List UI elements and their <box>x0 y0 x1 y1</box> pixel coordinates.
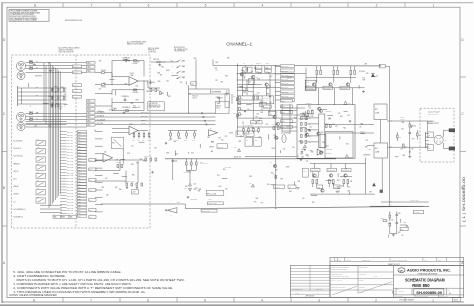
svg-text:C45: C45 <box>309 107 312 109</box>
svg-text:R21: R21 <box>257 114 260 116</box>
main signal bus A-CH1 <box>165 158 336 160</box>
cluster C18 R37 <box>117 165 119 168</box>
svg-text:C10: C10 <box>170 61 173 63</box>
svg-text:BD1: BD1 <box>89 169 92 171</box>
svg-text:R70: R70 <box>99 61 102 63</box>
svg-text:C23: C23 <box>193 183 196 185</box>
svg-text:J1B-14 SEL: J1B-14 SEL <box>67 169 74 171</box>
svg-text:D21: D21 <box>257 92 260 94</box>
svg-text:R37: R37 <box>301 142 304 144</box>
svg-text:100: 100 <box>251 71 253 73</box>
svg-text:R94: R94 <box>276 138 279 140</box>
wire R44 join <box>186 169 196 171</box>
bottom band cad box <box>453 298 461 302</box>
svg-text:REV: REV <box>448 289 451 291</box>
svg-text:RMX 850: RMX 850 <box>412 283 430 288</box>
svg-text:LINE: LINE <box>306 82 309 84</box>
svg-text:C20-1: C20-1 <box>78 190 82 192</box>
capacitor C10 <box>150 80 152 82</box>
jack terminal J22 <box>428 145 434 151</box>
svg-text:R85: R85 <box>301 157 304 159</box>
svg-text:C23-1: C23-1 <box>78 169 82 171</box>
transistor Q9 cluster <box>273 164 276 167</box>
svg-text:R122 R123: R122 R123 <box>191 198 198 200</box>
svg-text:SW1: SW1 <box>37 147 40 149</box>
svg-text:C39: C39 <box>305 116 308 118</box>
svg-text:Q16 MJ15025: Q16 MJ15025 <box>311 170 318 172</box>
svg-text:33K: 33K <box>211 151 213 153</box>
driver transistor Q13 <box>318 107 321 110</box>
svg-text:RY1: RY1 <box>375 109 378 111</box>
svg-text:R57: R57 <box>137 61 140 63</box>
svg-text:RY2: RY2 <box>112 143 115 145</box>
svg-text:C-2EM: C-2EM <box>375 152 379 154</box>
parts cluster x272 y125 <box>273 127 275 130</box>
svg-text:5. J1#A, J2#A ARE CONNECTED PI: 5. J1#A, J2#A ARE CONNECTED PIN TO PIN B… <box>13 271 122 274</box>
svg-text:J1B-1 SEL: J1B-1 SEL <box>67 131 73 133</box>
wire op-amp output <box>138 80 148 82</box>
svg-text:R15: R15 <box>311 110 314 112</box>
emitter resistor pair Q12 <box>350 70 352 74</box>
svg-text:C27-1: C27-1 <box>78 152 82 154</box>
emitter resistor pair Q10 <box>316 70 318 74</box>
svg-text:R37: R37 <box>347 190 350 192</box>
negative cells feed wire <box>310 163 366 165</box>
flyback diode D20 filled <box>371 73 375 77</box>
svg-text:R81: R81 <box>309 124 312 126</box>
output cells left vertical <box>305 68 307 88</box>
binding post negative <box>449 147 455 150</box>
svg-text:C24-1: C24-1 <box>78 172 82 174</box>
svg-text:SW1: SW1 <box>37 172 40 174</box>
svg-text:R77: R77 <box>225 136 228 138</box>
svg-text:R61: R61 <box>346 143 349 145</box>
svg-text:C24-1: C24-1 <box>78 143 82 145</box>
top rail vertical drops <box>245 72 247 73</box>
svg-text:GND-SH: GND-SH <box>141 119 146 121</box>
svg-text:R38 R39 C20: R38 R39 C20 <box>144 156 152 158</box>
input attenuator component cluster <box>51 88 53 91</box>
uia area wires <box>95 93 112 95</box>
svg-text:R79: R79 <box>412 139 415 141</box>
QSC logo ellipse <box>398 268 405 273</box>
label box Q10 MJ15024 <box>306 86 316 89</box>
central extra mesh wires <box>237 87 275 89</box>
svg-text:R88: R88 <box>308 130 311 132</box>
svg-text:R26: R26 <box>365 146 368 148</box>
svg-text:R11 PRE-1%: R11 PRE-1% <box>123 107 131 109</box>
svg-text:C54: C54 <box>140 159 143 161</box>
svg-text:ITEM: ITEM <box>338 259 341 261</box>
svg-text:R71: R71 <box>366 140 369 142</box>
svg-text:R12: R12 <box>152 90 155 92</box>
svg-text:C23-1: C23-1 <box>78 140 82 142</box>
svg-text:R97: R97 <box>61 87 64 89</box>
svg-text:CORD: CORD <box>306 85 310 87</box>
pot network R44 R45 cluster <box>186 162 188 165</box>
wire RY2 box drop <box>122 149 124 165</box>
svg-text:R64: R64 <box>103 83 106 85</box>
svg-text:C26-1: C26-1 <box>78 149 82 151</box>
svg-text:5: 5 <box>204 298 206 302</box>
svg-text:C47: C47 <box>270 76 273 78</box>
svg-text:C50: C50 <box>309 126 312 128</box>
svg-text:C26: C26 <box>225 189 228 191</box>
svg-text:J1B-6 SEL: J1B-6 SEL <box>67 146 73 148</box>
svg-text:C17: C17 <box>60 109 63 111</box>
svg-text:R49: R49 <box>239 141 242 143</box>
junction diode filled <box>372 183 376 187</box>
svg-text:R60: R60 <box>302 149 305 151</box>
svg-text:R41: R41 <box>298 181 301 183</box>
wire output to speaker upper <box>387 120 428 122</box>
svg-text:3. COMPONENTS MARKED WITH ⚠ AR: 3. COMPONENTS MARKED WITH ⚠ ARE SAFETY C… <box>13 283 132 286</box>
title block divider above number row <box>394 287 464 289</box>
svg-text:7: 7 <box>91 3 93 7</box>
svg-text:R80: R80 <box>119 189 122 191</box>
svg-text:R127: R127 <box>401 229 404 231</box>
svg-text:TL072: TL072 <box>109 109 113 111</box>
wire +15 CL-1 horizontal <box>381 201 429 203</box>
svg-text:R59: R59 <box>362 71 365 73</box>
svg-text:R76: R76 <box>127 153 130 155</box>
svg-text:C34: C34 <box>311 151 314 153</box>
svg-text:R20: R20 <box>191 153 194 155</box>
svg-text:J1B-18 SEL: J1B-18 SEL <box>67 181 74 183</box>
svg-text:J1B-3 SEL: J1B-3 SEL <box>67 137 73 139</box>
svg-text:+15V B: +15V B <box>141 123 145 125</box>
svg-text:C46: C46 <box>260 105 263 107</box>
svg-text:J2B/8 LINK-B: J2B/8 LINK-B <box>281 96 288 98</box>
negative output transistor cell Q16 <box>311 168 321 171</box>
U1B feedback components <box>112 137 124 149</box>
svg-text:D16: D16 <box>350 157 353 159</box>
svg-text:C35: C35 <box>311 116 314 118</box>
svg-text:R60: R60 <box>246 140 249 142</box>
svg-text:R24: R24 <box>245 88 248 90</box>
svg-text:R44: R44 <box>242 134 245 136</box>
svg-text:R60: R60 <box>241 97 244 99</box>
svg-text:1K: 1K <box>188 152 190 154</box>
svg-text:GND: GND <box>70 217 73 219</box>
svg-text:C50: C50 <box>341 186 344 188</box>
diode D11 <box>303 145 306 148</box>
svg-text:SCHEMATIC DIAGRAM: SCHEMATIC DIAGRAM <box>405 277 445 282</box>
svg-text:R52: R52 <box>398 232 401 234</box>
center cluster boxes x245 <box>245 137 252 146</box>
svg-text:C58: C58 <box>154 147 157 149</box>
svg-text:R35: R35 <box>131 103 134 105</box>
resistor R10 <box>134 89 137 91</box>
svg-text:J22: J22 <box>428 147 430 149</box>
servo lower stub wire <box>340 176 352 178</box>
vertical resistor row above U1B <box>133 134 135 137</box>
sparse signal label boxes right of pin columns <box>89 159 96 162</box>
zener pair D12 D13 <box>189 183 192 186</box>
output transistor Q12 <box>346 83 349 86</box>
svg-text:J1B-17 SEL: J1B-17 SEL <box>67 178 74 180</box>
svg-text:R29: R29 <box>56 104 59 106</box>
svg-text:J1B-28 SEL: J1B-28 SEL <box>67 210 74 212</box>
resistor R125 horizontal <box>383 220 386 222</box>
svg-text:R52: R52 <box>265 71 268 73</box>
resistor stack on left rail <box>239 96 241 99</box>
svg-text:R73: R73 <box>240 136 243 138</box>
svg-text:J2B/12: J2B/12 <box>281 112 285 114</box>
svg-text:R72: R72 <box>60 107 63 109</box>
svg-text:C54: C54 <box>166 81 169 83</box>
svg-text:J1B-24 SEL: J1B-24 SEL <box>67 199 74 201</box>
svg-text:J1B-10 SEL: J1B-10 SEL <box>67 158 74 160</box>
svg-text:C61: C61 <box>289 187 292 189</box>
svg-text:C48: C48 <box>266 88 269 90</box>
component cluster R40 R41 C25 <box>170 133 172 136</box>
svg-text:R95: R95 <box>185 186 188 188</box>
cluster R73 bottom <box>326 125 328 128</box>
svg-text:5: 5 <box>205 3 207 7</box>
svg-text:+HV: +HV <box>364 64 367 66</box>
svg-text:C21-1: C21-1 <box>78 134 82 136</box>
extra wires mid-left cluster <box>95 159 145 161</box>
svg-text:3: 3 <box>318 298 320 302</box>
svg-text:C30: C30 <box>255 116 258 118</box>
central block horizontal wires <box>237 84 262 86</box>
output network cap and ground <box>409 131 411 133</box>
bus label box GND CL-1 <box>208 202 224 205</box>
capacitor C28 label box <box>217 144 228 148</box>
svg-text:R70: R70 <box>138 107 141 109</box>
svg-text:R13: R13 <box>161 93 164 95</box>
svg-text:C37: C37 <box>297 188 300 190</box>
bus inline label boxes right <box>274 185 285 188</box>
drawing number SH-000850-00 <box>414 289 444 295</box>
svg-text:C51: C51 <box>255 140 258 142</box>
svg-text:R49: R49 <box>225 75 228 77</box>
zone ticks top <box>62 3 64 7</box>
svg-text:100: 100 <box>302 198 304 200</box>
svg-text:C28-1: C28-1 <box>78 155 82 157</box>
svg-text:MJE15034: MJE15034 <box>326 111 332 113</box>
svg-text:C24: C24 <box>174 161 177 163</box>
pin tag column J2B center upper <box>280 65 294 68</box>
label box Q11 MJ15024 <box>323 86 333 89</box>
svg-text:Q14: Q14 <box>326 146 329 148</box>
svg-text:R60: R60 <box>289 191 292 193</box>
svg-text:C38: C38 <box>193 189 196 191</box>
svg-text:D12: D12 <box>184 188 187 190</box>
svg-text:R58: R58 <box>131 164 134 166</box>
svg-text:C14: C14 <box>247 109 250 111</box>
svg-text:R40: R40 <box>321 132 324 134</box>
binding post positive <box>449 129 455 132</box>
svg-text:R64: R64 <box>343 127 346 129</box>
svg-text:R34: R34 <box>340 116 343 118</box>
speaker output dashed enclosure <box>420 108 454 162</box>
svg-text:R58: R58 <box>125 83 128 85</box>
svg-text:C57: C57 <box>401 235 404 237</box>
wire C24 drop <box>172 171 174 180</box>
svg-text:C30: C30 <box>398 213 401 215</box>
svg-text:C16: C16 <box>335 126 338 128</box>
signal bus secondary <box>245 155 296 157</box>
zone ticks right <box>460 76 466 78</box>
svg-text:D10: D10 <box>234 147 237 149</box>
rail component group C40 <box>245 66 247 68</box>
jack terminal J21 <box>428 132 434 138</box>
connector J2A pin tag boxes middle <box>87 100 96 103</box>
extra ground symbols <box>244 110 246 111</box>
svg-text:1N4148: 1N4148 <box>309 113 314 115</box>
comparator triangle U3A <box>209 130 218 136</box>
svg-text:1. THIS DRAWING USED IN CONJUN: 1. THIS DRAWING USED IN CONJUNCTION WITH… <box>13 291 146 294</box>
svg-text:C57: C57 <box>305 132 308 134</box>
wire bus to CL-1 label <box>413 210 424 213</box>
parts cluster x302 y113 <box>303 114 305 117</box>
svg-text:D20: D20 <box>376 75 379 77</box>
svg-text:1K: 1K <box>270 102 272 104</box>
connector J2B dense pin box column right <box>77 130 86 132</box>
wire y206 long <box>370 205 424 207</box>
svg-text:2. COMPONENTS WITH VALUE PREFI: 2. COMPONENTS WITH VALUE PREFIXED WITH A… <box>13 287 173 290</box>
svg-text:C27-1: C27-1 <box>78 181 82 183</box>
svg-text:R80: R80 <box>174 141 177 143</box>
op-amp U3B lower-left pointing left <box>167 208 177 213</box>
regulator cluster <box>132 190 139 195</box>
svg-text:J1B-26 SEL: J1B-26 SEL <box>67 204 74 206</box>
svg-text:R71: R71 <box>51 103 54 105</box>
svg-text:WRITTEN PERMISSION IS PROHIBIT: WRITTEN PERMISSION IS PROHIBITED. <box>10 18 38 20</box>
vertical wire x275 <box>275 138 277 207</box>
svg-text:C42: C42 <box>258 136 261 138</box>
sheet bottom edge shadow <box>0 304 474 306</box>
svg-text:J1B-16 SEL: J1B-16 SEL <box>67 175 74 177</box>
XLR connector J5 male <box>17 123 25 131</box>
sheet left edge line <box>1 2 3 303</box>
svg-text:SIG: SIG <box>36 61 38 63</box>
svg-text:R59: R59 <box>280 178 283 180</box>
wire op-amp inputs <box>112 76 129 78</box>
svg-text:J2B/1 LINK-B: J2B/1 LINK-B <box>281 66 288 68</box>
comparator triangle small <box>317 149 323 155</box>
connector J2A tag boxes inner column <box>73 65 82 68</box>
branch join and ground <box>390 233 397 235</box>
svg-text:CH-1 SIG IN: CH-1 SIG IN <box>97 116 104 118</box>
svg-text:J2B/5 LINK-B: J2B/5 LINK-B <box>281 83 288 85</box>
svg-text:GRN-YW: GRN-YW <box>360 131 366 133</box>
svg-text:R89: R89 <box>306 155 309 157</box>
svg-text:C-2EM: C-2EM <box>368 149 372 151</box>
svg-text:C29-1: C29-1 <box>78 216 82 218</box>
ground symbol near output <box>363 90 365 91</box>
svg-text:R93: R93 <box>399 136 402 138</box>
svg-text:P/N SELECT: P/N SELECT <box>148 50 156 52</box>
capacitor C50 label box <box>269 111 277 116</box>
wires around U1B <box>112 127 129 129</box>
svg-text:C49 R63: C49 R63 <box>273 124 278 126</box>
svg-text:R30: R30 <box>259 118 262 120</box>
svg-text:C28-1: C28-1 <box>78 184 82 186</box>
output transistor Q11 <box>329 83 332 86</box>
svg-text:C49: C49 <box>99 89 102 91</box>
svg-text:RY2: RY2 <box>375 148 378 150</box>
junction dots <box>237 65 238 66</box>
svg-text:GND CL-1 CON: GND CL-1 CON <box>208 203 217 205</box>
svg-text:C21-1: C21-1 <box>78 163 82 165</box>
svg-text:C29-1: C29-1 <box>78 187 82 189</box>
svg-text:R95: R95 <box>301 153 304 155</box>
svg-text:8: 8 <box>34 3 36 7</box>
svg-text:BD6: BD6 <box>89 217 92 219</box>
svg-text:SH-000850-00: SH-000850-00 <box>416 290 442 295</box>
svg-text:J1B-23 SEL: J1B-23 SEL <box>67 196 74 198</box>
bus stub wires into pin area <box>40 204 62 206</box>
op-amp U1C mid-left <box>103 154 113 163</box>
svg-text:C60: C60 <box>303 170 306 172</box>
svg-text:C46 1000: C46 1000 <box>263 97 269 99</box>
negative output transistor cell Q17 <box>327 168 337 171</box>
svg-text:QSC: QSC <box>399 270 404 272</box>
svg-text:10K: 10K <box>160 74 162 76</box>
svg-text:CH-1 SHOWN SET: CH-1 SHOWN SET <box>174 51 185 53</box>
svg-text:R125: R125 <box>381 218 384 220</box>
svg-text:R98: R98 <box>249 176 252 178</box>
input panel jack wires extension <box>48 87 67 89</box>
svg-text:J1B-7 SEL: J1B-7 SEL <box>67 149 73 151</box>
svg-text:C28: C28 <box>401 128 404 130</box>
label boxes +15V CL-1 row <box>250 121 256 124</box>
svg-text:C9 PRE-1%: C9 PRE-1% <box>122 96 130 98</box>
gain network cluster R12 R13 <box>150 89 152 92</box>
svg-text:R51 10K: R51 10K <box>256 63 261 65</box>
svg-text:SW1: SW1 <box>37 155 40 157</box>
svg-text:R86: R86 <box>403 155 406 157</box>
revision rows table <box>290 265 330 297</box>
input panel vertical joins <box>43 63 45 121</box>
svg-text:C28: C28 <box>409 152 412 154</box>
svg-text:R84: R84 <box>309 142 312 144</box>
svg-text:R24 1.5K: R24 1.5K <box>154 59 160 61</box>
svg-text:FSCM NO.: FSCM NO. <box>399 290 405 292</box>
svg-text:10K TP3: 10K TP3 <box>287 76 292 78</box>
svg-text:C59: C59 <box>286 126 289 128</box>
svg-text:J1B-2 SEL: J1B-2 SEL <box>67 134 73 136</box>
wire mid rail horizontal 2 <box>237 79 281 81</box>
svg-text:R51: R51 <box>256 71 259 73</box>
svg-text:C18 R37: C18 R37 <box>116 162 121 164</box>
output cells top link wire <box>306 76 356 78</box>
svg-text:J1B-29 SEL: J1B-29 SEL <box>67 213 74 215</box>
svg-text:R9 10K: R9 10K <box>101 87 106 89</box>
diode D10 <box>238 149 241 152</box>
svg-text:( 1 ) SH-000850-00: ( 1 ) SH-000850-00 <box>462 177 466 222</box>
svg-text:1: 1 <box>433 3 435 7</box>
svg-text:C50: C50 <box>269 114 272 116</box>
svg-text:R90: R90 <box>161 67 164 69</box>
svg-text:SW1: SW1 <box>37 164 40 166</box>
bus step vertical <box>184 204 186 209</box>
svg-text:R30: R30 <box>158 81 161 83</box>
svg-text:J1B-27 SEL: J1B-27 SEL <box>67 207 74 209</box>
svg-text:F1: F1 <box>380 66 382 68</box>
svg-text:J1B-20 SEL: J1B-20 SEL <box>67 187 74 189</box>
svg-text:R10: R10 <box>271 173 274 175</box>
svg-text:B-CH1 SIG: B-CH1 SIG <box>141 116 147 118</box>
svg-text:C20-1: C20-1 <box>78 161 82 163</box>
svg-text:C19: C19 <box>359 126 362 128</box>
XLR connector J1 female <box>16 61 25 70</box>
svg-text:R52: R52 <box>133 106 136 108</box>
svg-text:QT: QT <box>331 259 333 261</box>
